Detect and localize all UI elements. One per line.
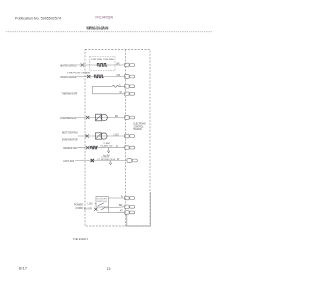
svg-text:15: 15 (107, 267, 111, 271)
wire compressor row (77, 117, 125, 119)
heater note text below box (67, 71, 91, 74)
light switch contact S3 (101, 207, 106, 210)
wire light row (75, 160, 127, 162)
wire HTR1 row (78, 64, 125, 66)
splice X2 on HTR2 wire (87, 75, 90, 78)
label evaporator fan motor M2 line2 (62, 138, 78, 142)
splice X4 (85, 134, 88, 137)
splice X1 on HTR1 wire (81, 63, 84, 66)
svg-text:THE EVER 2: THE EVER 2 (73, 237, 88, 241)
connector J8 (127, 159, 137, 163)
splice X3 (86, 116, 89, 119)
splice X6 (91, 159, 94, 162)
connector J1 (125, 63, 135, 67)
electronic control board U1 dashed left edge (125, 50, 127, 227)
svg-text:FFU14F5QW: FFU14F5QW (96, 15, 114, 19)
door switch label line1 (97, 199, 107, 201)
wire color R bottom1 (121, 195, 123, 198)
compressor overload relay (96, 114, 102, 121)
heater note text inside box (91, 59, 115, 61)
footer date code (19, 267, 28, 271)
svg-text:HARNESS MAIN: HARNESS MAIN (63, 146, 78, 150)
svg-text:BR: BR (119, 204, 123, 207)
wire color AT bottom3 (120, 210, 123, 213)
wire S3 to connector J10 (106, 207, 125, 208)
node label above row D (97, 157, 116, 161)
svg-text:COMPRESSOR: COMPRESSOR (60, 116, 77, 120)
wire color W row D (117, 158, 120, 161)
svg-text:BK: BK (117, 63, 121, 66)
svg-text:N: N (116, 145, 118, 148)
connector J3 (125, 85, 135, 89)
compressor motor circle (101, 114, 107, 120)
label defrost thermostat S1 (62, 92, 78, 96)
return wire to board bottom (127, 192, 151, 226)
heater shield dashed box (90, 56, 115, 70)
svg-text:LIGHT-FRZ: LIGHT-FRZ (63, 159, 74, 163)
svg-text:TWR MRK TWR MRK: TWR MRK TWR MRK (91, 59, 115, 61)
wire harness row (78, 147, 125, 149)
connector J9 (125, 196, 135, 200)
label evaporator fan motor M2 line1 (62, 130, 78, 134)
wire fan row (78, 135, 125, 137)
fan motor circle (101, 133, 107, 139)
label power cord line2 (76, 206, 84, 210)
node note below row C (103, 155, 110, 157)
wire color W row3b (120, 91, 123, 94)
svg-text:BU-OR: BU-OR (84, 207, 92, 210)
svg-text:OR: OR (117, 74, 121, 77)
dotted rule under title (6, 31, 212, 33)
junction drop mark row D (109, 161, 111, 165)
label freezer light DS1 (63, 159, 74, 163)
svg-text:MOTOR-FAN: MOTOR-FAN (62, 130, 78, 134)
svg-text:L BU: L BU (88, 202, 93, 205)
connector J10 (125, 205, 135, 209)
footer page number (107, 267, 111, 271)
wire color BK compressor (115, 115, 119, 118)
svg-text:BK: BK (115, 115, 119, 118)
connector J2 (125, 75, 135, 79)
svg-text:R: R (121, 195, 123, 198)
label harness main W1 (63, 146, 78, 150)
wire color BR bottom2 (119, 204, 123, 207)
connector J4 (125, 92, 135, 96)
connector J7 (125, 146, 135, 150)
thermostat loop wires (93, 86, 125, 94)
svg-text:EVAPORATOR: EVAPORATOR (62, 138, 78, 142)
electronic control board label (134, 123, 147, 131)
svg-text:6/17: 6/17 (19, 267, 28, 271)
cabinet dashed enclosure (85, 50, 150, 227)
svg-text:Publication No. 5995502574: Publication No. 5995502574 (15, 17, 61, 21)
svg-text:DRAIN WATER: DRAIN WATER (61, 75, 78, 79)
wire top to connector J3 (120, 84, 126, 87)
wire color L BU fan (114, 133, 119, 136)
note below diagram (73, 237, 88, 241)
label compressor M1 (60, 116, 77, 120)
thermostat element squiggle (113, 85, 122, 87)
connector J6 (125, 134, 135, 138)
fan motor run cap (96, 133, 102, 139)
label drain trough heater HTR2 (61, 75, 78, 79)
svg-text:THERMOSTAT: THERMOSTAT (62, 92, 78, 96)
svg-text:N-BK W: N-BK W (101, 145, 113, 147)
title WIRING DIAGRAM (87, 26, 109, 31)
junction drop mark row C (107, 148, 109, 153)
harness coil L1 (91, 146, 98, 149)
door switch label line2 (97, 201, 107, 203)
door switch contact (98, 203, 104, 206)
svg-text:CT WORM OF A: CT WORM OF A (97, 158, 116, 161)
svg-text:SWITCH: SWITCH (97, 201, 107, 203)
wire color BK row1 (117, 63, 121, 66)
heater coil HTR1 (97, 63, 107, 66)
header model number (96, 15, 114, 19)
connector J5 (125, 116, 135, 120)
wire color L BU door (88, 202, 93, 205)
header publication number (15, 17, 61, 21)
label heater-defrost HTR1 (60, 63, 78, 67)
splice X5 (86, 146, 89, 149)
splice X7 (94, 208, 97, 211)
drain heater coil HTR2 (94, 75, 103, 78)
wire color N row C (116, 145, 118, 148)
wire color OR row2 (117, 74, 121, 77)
wire HTR2 row (77, 76, 125, 78)
wire door switch to connector J9 (108, 197, 125, 199)
wire into door switch box (95, 203, 97, 205)
door switch box S2 (96, 197, 108, 208)
svg-text:HEATER-DEFROST: HEATER-DEFROST (60, 63, 78, 67)
svg-text:WIRING DIAGRAM: WIRING DIAGRAM (87, 26, 109, 31)
wire box bottom drop to third row (97, 207, 124, 212)
wire color BU-OR bottom2 (84, 207, 92, 210)
svg-text:L BU: L BU (114, 133, 119, 136)
label power cord line1 (74, 203, 83, 207)
svg-text:CORD: CORD (76, 206, 84, 210)
svg-text:BOARD: BOARD (134, 128, 142, 131)
node label above harness wire (101, 143, 113, 147)
connector J11 (125, 211, 135, 215)
